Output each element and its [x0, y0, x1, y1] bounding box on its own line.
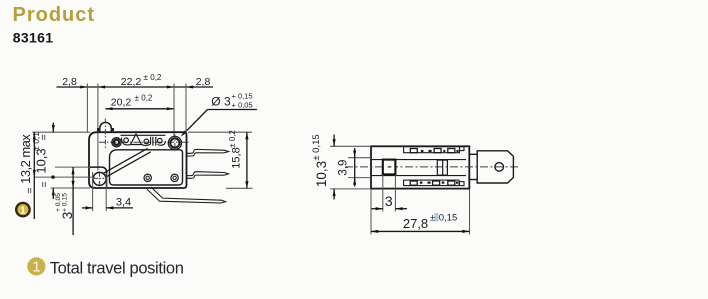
svg-text:2,8: 2,8	[196, 76, 211, 88]
svg-text:3: 3	[385, 193, 393, 209]
mechanism circle B	[144, 139, 149, 144]
svg-text:=: =	[38, 181, 50, 187]
foot tab	[89, 167, 107, 188]
extension line right hole center	[173, 84, 175, 137]
svg-text:22,2: 22,2	[121, 76, 142, 88]
hole bottom-left center dashes	[94, 177, 104, 179]
svg-text:± 0,2: ± 0,2	[135, 94, 153, 103]
svg-text:1: 1	[20, 204, 26, 216]
legend circled 1	[27, 257, 45, 275]
dim line top	[57, 86, 214, 88]
mechanism bars	[152, 137, 154, 146]
slot top hidden detail	[404, 147, 460, 153]
extension line body right edge	[185, 84, 187, 133]
mounting hole bottom-left	[93, 172, 106, 185]
dim line 20,2	[105, 108, 174, 110]
inner panel	[110, 150, 183, 185]
mechanism cradle C	[158, 141, 166, 145]
svg-text:Total travel position: Total travel position	[50, 259, 184, 277]
mechanism roller ring	[112, 138, 121, 147]
extension line rv bottom	[330, 188, 371, 190]
extension line 27,8 left	[370, 190, 372, 235]
centerline right view	[345, 166, 520, 168]
extension line rv top	[330, 145, 371, 147]
terminal blade hole	[495, 163, 504, 172]
extension line foot top	[55, 166, 90, 168]
extension line body top to right	[188, 131, 252, 133]
svg-text:0,15: 0,15	[439, 213, 458, 224]
neck	[469, 153, 477, 155]
plunger	[98, 122, 114, 132]
svg-text:+ 0,15: + 0,15	[61, 193, 68, 212]
dim line 10,3 right	[333, 135, 335, 147]
mechanism circle A	[124, 138, 129, 143]
slot top right nub	[460, 147, 465, 151]
svg-text:±: ±	[430, 213, 435, 224]
svg-text:+ 0,15: + 0,15	[232, 91, 253, 100]
dim line 15,8	[246, 132, 248, 188]
terminal pin 2	[187, 172, 229, 179]
lever terminal	[147, 187, 225, 203]
mechanism cradle A	[122, 138, 131, 145]
svg-text:± 0,2: ± 0,2	[228, 130, 237, 148]
svg-text:10,3: 10,3	[314, 161, 329, 187]
extension line hole centerline left	[34, 176, 95, 178]
svg-text:± 0,2: ± 0,2	[144, 73, 162, 82]
mechanism circle C	[158, 138, 163, 143]
body outline right view	[371, 146, 469, 188]
extension line body bottom to left	[51, 187, 91, 189]
dim line 3,4	[82, 207, 93, 209]
extension line left hole center	[97, 84, 99, 171]
svg-text:Ø 3: Ø 3	[211, 95, 231, 109]
svg-text:10,3: 10,3	[33, 148, 48, 173]
hole top-right centerline	[174, 135, 176, 152]
svg-text:=: =	[38, 134, 50, 140]
cursor highlight	[435, 213, 439, 221]
extension line body top to left	[32, 131, 90, 133]
dim line 13,2	[52, 123, 54, 133]
dim line 3,9	[354, 148, 356, 187]
svg-text:2,8: 2,8	[62, 76, 77, 88]
extension lines 3,4	[92, 172, 94, 211]
extension line body left edge	[86, 84, 88, 133]
dim line 27,8	[371, 230, 470, 232]
svg-text:3,9: 3,9	[338, 160, 350, 176]
callout 1 circled	[16, 203, 29, 216]
leader line for diameter 3	[208, 109, 258, 111]
svg-text:20,2: 20,2	[111, 97, 132, 109]
extension line 3,9 bottom	[348, 177, 371, 179]
plunger square	[383, 160, 396, 175]
dim line 10,3 left	[33, 132, 35, 219]
svg-text:3,4: 3,4	[116, 197, 131, 209]
svg-text:+ 0,05: + 0,05	[232, 100, 253, 109]
small circle lower right	[171, 174, 178, 181]
channel line top	[371, 159, 466, 161]
svg-text:27,8: 27,8	[403, 216, 428, 231]
spring blade diagonal	[103, 148, 148, 173]
mechanism centerline	[99, 141, 189, 143]
slot bottom right nub	[460, 182, 465, 186]
extension lines dim 3 right view	[382, 175, 384, 212]
svg-text:=: =	[24, 187, 36, 193]
svg-text:15,8: 15,8	[230, 147, 242, 168]
extension line 3,9 top	[348, 157, 371, 159]
terminal blade	[477, 151, 513, 183]
mechanism triangle	[131, 134, 142, 145]
dim line 3 right view	[372, 208, 383, 210]
slot bottom hidden detail	[404, 180, 459, 186]
svg-text:1: 1	[32, 259, 40, 276]
mechanism top line	[121, 134, 166, 136]
dim line 3 vertical	[72, 167, 74, 235]
switch body outline	[89, 132, 187, 188]
channel line bottom	[371, 175, 466, 177]
mechanism cradle B	[142, 137, 151, 146]
junction dot	[51, 175, 54, 178]
plunger centerline	[104, 119, 106, 151]
svg-text:Product: Product	[13, 4, 96, 26]
mounting hole top-right	[168, 136, 181, 149]
extension line body bottom to right	[226, 187, 253, 189]
small circle lower mid	[144, 174, 151, 181]
svg-text:± 0,15: ± 0,15	[311, 134, 322, 160]
svg-text:+ 0,05: + 0,05	[55, 193, 62, 212]
svg-text:13,2 max: 13,2 max	[18, 134, 33, 184]
extension line 27,8 right	[469, 190, 471, 235]
middle latch	[437, 160, 447, 175]
terminal pin 1	[187, 149, 229, 156]
svg-text:83161: 83161	[13, 29, 54, 45]
